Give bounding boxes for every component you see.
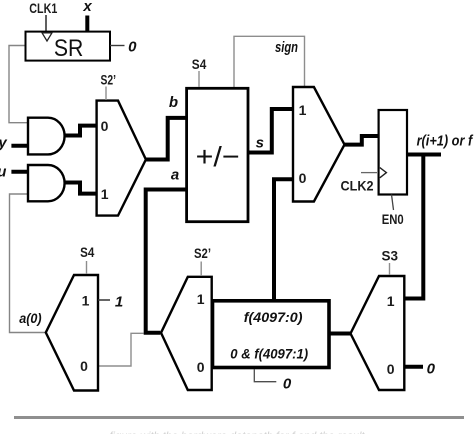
svg-text:f(4097:0): f(4097:0)	[244, 309, 303, 325]
wire feedback down to S3 mux input 1	[404, 155, 423, 299]
svg-text:+/−: +/−	[196, 141, 240, 172]
svg-text:SR: SR	[54, 35, 84, 62]
wire S4 select line	[198, 71, 200, 87]
caption rule	[14, 416, 464, 419]
svg-text:0: 0	[283, 376, 292, 393]
svg-text:x: x	[82, 0, 92, 15]
svg-text:S4: S4	[192, 56, 207, 72]
wire SR output stub	[110, 45, 125, 47]
svg-text:S2’: S2’	[194, 245, 211, 261]
mux M5 S3 bottom right	[351, 276, 405, 390]
svg-text:1: 1	[115, 294, 123, 311]
bus box f values	[213, 301, 330, 368]
wire a(0) from S4 mux apex to AND2 bottom input	[10, 194, 46, 333]
wire select line M4	[86, 261, 88, 274]
wire G2 output to mux M1 input 1	[65, 183, 97, 194]
svg-text:1: 1	[82, 293, 90, 309]
wire f-box output to S3 mux apex	[329, 332, 352, 336]
wire b from M1 output to ALU	[145, 118, 187, 160]
wire register output r(i+1)	[407, 153, 441, 157]
wire y input stub	[11, 144, 28, 148]
svg-text:1: 1	[101, 186, 109, 202]
AND gate G1	[28, 118, 65, 155]
svg-text:S3: S3	[382, 247, 399, 263]
wire a from bottom mux junction to ALU	[146, 190, 187, 333]
svg-text:0: 0	[299, 170, 307, 186]
wire 0 tag under f-box	[254, 369, 276, 382]
svg-text:0: 0	[387, 361, 395, 377]
svg-text:CLK2: CLK2	[341, 177, 374, 193]
mux M1 S2' top	[97, 101, 146, 216]
register SR	[26, 32, 111, 61]
svg-text:u: u	[0, 163, 6, 180]
svg-text:b: b	[169, 94, 178, 111]
wire S2' select line	[105, 87, 107, 101]
mux M2 sign	[293, 87, 345, 202]
AND gate G2	[28, 165, 65, 201]
svg-text:S4: S4	[80, 244, 94, 260]
svg-text:y: y	[0, 135, 7, 152]
wire constant 1 stub	[98, 299, 110, 301]
svg-text:0: 0	[197, 359, 205, 375]
svg-text:1: 1	[299, 102, 307, 118]
svg-text:0 & f(4097:1): 0 & f(4097:1)	[230, 346, 308, 362]
mux M4 S4 bottom left	[46, 275, 98, 391]
ALU adder-subtractor	[187, 88, 248, 221]
svg-text:figure with the hardware datap: figure with the hardware datapath for f …	[110, 431, 366, 434]
register REG right	[379, 110, 407, 195]
svg-text:0: 0	[101, 118, 109, 134]
wire G1 output to mux M1 input 0	[65, 126, 97, 136]
wire S4 mux 0-input from bottom junction	[98, 333, 144, 366]
svg-text:0: 0	[427, 361, 436, 378]
wire CLK2 arrow	[361, 172, 377, 174]
svg-text:1: 1	[387, 293, 395, 309]
svg-text:S2’: S2’	[101, 72, 117, 88]
svg-text:EN0: EN0	[382, 211, 404, 227]
svg-text:s: s	[256, 135, 264, 152]
wire CLK1 to SR clock	[45, 15, 47, 31]
svg-text:r(i+1) or f: r(i+1) or f	[417, 133, 474, 150]
wire sign from ALU top to sign-mux top	[234, 36, 305, 87]
svg-text:a: a	[171, 166, 179, 183]
wire select line M3	[200, 262, 202, 277]
svg-text:0: 0	[128, 38, 137, 55]
svg-text:0: 0	[80, 358, 88, 374]
wire u input stub	[11, 170, 28, 174]
wire select line M5	[389, 263, 391, 275]
mux M3 S2' bottom	[161, 277, 212, 390]
wire EN0 stub	[392, 195, 394, 211]
wire sign-mux input 0 from f-box top	[274, 179, 293, 299]
wire SR left feedback to AND1 top input	[9, 46, 28, 123]
svg-text:a(0): a(0)	[19, 310, 42, 326]
wire s from ALU to sign-mux input 1	[249, 109, 293, 153]
clock triangle SR	[42, 33, 52, 41]
svg-text:CLK1: CLK1	[29, 0, 57, 16]
wire constant 0 stub	[404, 365, 423, 369]
wire x input to SR	[85, 16, 89, 33]
svg-text:1: 1	[197, 291, 205, 307]
svg-text:sign: sign	[275, 39, 298, 56]
wire M2 output to register	[344, 136, 378, 145]
clock triangle REG	[380, 168, 387, 178]
